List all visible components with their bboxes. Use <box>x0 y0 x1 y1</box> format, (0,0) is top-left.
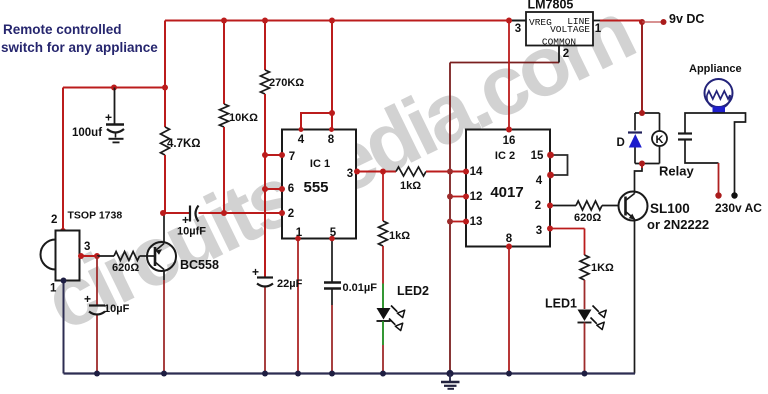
svg-text:4017: 4017 <box>490 184 523 201</box>
node 4017 pin2 <box>547 203 553 209</box>
node rail 4017 pin8 <box>506 371 512 377</box>
wire left horizontal y87 <box>63 87 165 89</box>
wire 10K bottom lead <box>223 127 225 213</box>
wire LED2 mid <box>382 246 384 308</box>
label VREG <box>529 17 552 28</box>
label 4017 <box>490 184 523 201</box>
label Relay <box>659 164 694 179</box>
node rail BC558 <box>161 371 167 377</box>
node TSOP pin2 <box>60 228 66 234</box>
svg-text:230v AC: 230v AC <box>715 201 762 215</box>
wire 270K top lead <box>264 21 266 71</box>
label 4017 pin16 <box>503 135 516 147</box>
svg-text:3: 3 <box>347 168 353 180</box>
wire 100uf cap lead <box>114 88 116 125</box>
label TSOP pin 3 <box>84 241 90 253</box>
wire 555 pin3 <box>356 171 396 173</box>
node rail 555 pin5 <box>329 371 335 377</box>
svg-text:6: 6 <box>288 183 294 195</box>
transistor Q SL100 <box>619 192 648 221</box>
node junction x165 y87 <box>162 85 168 91</box>
wire 4017 pin15-pin4 loop <box>550 155 568 175</box>
wire 4017 pin12 <box>450 196 466 198</box>
resistor R 1K LED1 <box>580 255 589 280</box>
svg-text:1: 1 <box>50 283 57 295</box>
wire 4017 pin2 to base <box>550 205 576 207</box>
node AC terminal black <box>731 192 737 198</box>
wire 270K bottom lead <box>264 94 266 277</box>
node 4017 pin14 <box>463 169 469 175</box>
label VOLTAGE <box>550 24 590 35</box>
node 9v junction <box>639 19 645 25</box>
svg-text:Remote controlled: Remote controlled <box>3 22 122 37</box>
svg-text:555: 555 <box>303 179 328 196</box>
node 9v terminal <box>661 19 667 25</box>
wire appliance bracket <box>685 113 746 195</box>
label 10uF <box>104 303 130 315</box>
node 555 pin7 <box>279 152 285 158</box>
node 4017 pin8 <box>506 244 512 250</box>
label 270KOhm <box>269 77 304 89</box>
label LED1 <box>545 297 577 311</box>
resistor R 4.7K <box>161 127 170 155</box>
label LINE <box>567 16 590 27</box>
wire diode top lead <box>634 113 636 131</box>
node junction pin7 <box>262 152 268 158</box>
svg-text:2: 2 <box>563 48 569 60</box>
svg-text:4.7KΩ: 4.7KΩ <box>167 138 201 150</box>
capacitor C 10uF <box>84 292 105 315</box>
label 620ohm right <box>574 212 601 224</box>
wire 555 pin1 ground <box>297 239 299 374</box>
svg-text:COMMON: COMMON <box>542 37 576 48</box>
wire 620 to SL100 base <box>602 205 619 207</box>
svg-text:1kΩ: 1kΩ <box>389 230 410 242</box>
label 4.7KOhm <box>167 138 201 150</box>
node top rail junction x224 <box>221 18 227 24</box>
node 555 pin3 <box>354 169 360 175</box>
label IC 1 <box>310 158 330 170</box>
wire LED1 to rail <box>584 323 586 374</box>
wire to 620ohm <box>97 255 114 257</box>
svg-text:1kΩ: 1kΩ <box>400 180 421 192</box>
wire 555 supply bracket <box>301 21 332 130</box>
wire 555 pin7 <box>265 154 282 156</box>
svg-text:13: 13 <box>470 216 483 228</box>
node relay top junction <box>639 110 645 116</box>
node rail LED2 <box>380 371 386 377</box>
node 555 pin8 <box>329 127 334 132</box>
label 555 pin3 <box>347 168 353 180</box>
label TSOP 1738 <box>68 210 123 222</box>
svg-text:620Ω: 620Ω <box>112 262 139 274</box>
node 4017 pin4 <box>547 172 554 179</box>
label 555 pin8 <box>328 134 335 146</box>
node junction 10K y213 <box>221 210 227 216</box>
svg-text:2: 2 <box>288 208 294 220</box>
LED1 arrows <box>591 306 607 330</box>
ground symbol <box>441 374 460 389</box>
node junction common pin14 <box>447 169 453 175</box>
wire x165 resistor to junction <box>164 155 166 213</box>
svg-text:BC558: BC558 <box>180 258 219 272</box>
LED2 diode <box>377 308 391 321</box>
resistor R 10K <box>220 104 229 127</box>
wire 4017 pin13 <box>450 221 466 223</box>
node junction common pin12 <box>447 194 453 200</box>
node top rail junction x265 <box>262 18 268 24</box>
wire y213 junction to cap <box>163 212 190 214</box>
wire common from regulator <box>450 46 559 63</box>
op-amp IC1 555 box <box>282 130 356 239</box>
wire common vertical x450 <box>449 63 451 374</box>
svg-text:switch for any appliance: switch for any appliance <box>1 40 158 55</box>
resistor R 620ohm right <box>576 201 602 210</box>
resistor R 1k horizontal <box>396 167 426 176</box>
label 4017 pin15 <box>531 150 544 162</box>
svg-text:14: 14 <box>470 166 483 178</box>
svg-text:IC 2: IC 2 <box>495 150 515 162</box>
wire AC live <box>718 163 720 195</box>
node junction emitter y213 <box>160 210 166 216</box>
label LM7805 pin2 <box>563 48 569 60</box>
node 555 pin4 <box>299 127 304 132</box>
wire cap to AC <box>685 140 719 164</box>
svg-text:LED1: LED1 <box>545 297 577 311</box>
node rail 555 pin1 <box>295 371 301 377</box>
svg-text:10µfF: 10µfF <box>177 226 206 238</box>
svg-text:LED2: LED2 <box>397 284 429 298</box>
label 620ohm left <box>112 262 139 274</box>
node junction pin3 x97 <box>94 253 100 259</box>
node rail ground <box>446 370 453 377</box>
node junction 100uf cap <box>111 85 117 91</box>
label BC558 <box>180 258 219 272</box>
svg-text:10KΩ: 10KΩ <box>229 112 258 124</box>
wire relay top bracket <box>635 112 660 114</box>
label D <box>617 137 625 149</box>
node junction pin6 <box>262 186 268 192</box>
wire ground rail <box>64 372 636 374</box>
svg-text:SL100: SL100 <box>650 201 690 216</box>
node 555 pin5 <box>329 236 335 242</box>
node relay bottom junction <box>639 161 645 167</box>
label LM7805 pin1 <box>595 23 602 35</box>
label Appliance <box>689 63 742 75</box>
node top rail junction x332 <box>329 18 335 24</box>
node junction common pin13 <box>447 219 453 225</box>
LED2 arrows <box>389 306 405 331</box>
label 230v AC <box>715 201 762 215</box>
node rail 22uF <box>262 371 268 377</box>
label LM7805 <box>528 0 574 12</box>
svg-text:8: 8 <box>506 233 513 245</box>
label 555 pin7 <box>289 151 295 163</box>
wire x165 to resistor <box>164 88 166 128</box>
label 4017 pin12 <box>470 191 483 203</box>
wire 4017 pin3 <box>550 228 585 230</box>
wire relay bottom bracket <box>635 163 660 165</box>
label LED2 <box>397 284 429 298</box>
node rail 10uF <box>94 371 100 377</box>
label 1K LED1 <box>591 262 614 274</box>
label 22uF <box>277 278 303 290</box>
capacitor C 100uf <box>105 111 124 143</box>
label COMMON <box>542 37 576 48</box>
node junction LED2 branch <box>380 169 386 175</box>
wire SL100 collector <box>635 164 643 194</box>
svg-text:4: 4 <box>298 134 305 146</box>
svg-text:IC 1: IC 1 <box>310 158 330 170</box>
wire cap to 555 pin2 <box>199 212 283 214</box>
label 555 pin4 <box>298 134 305 146</box>
label 10ufF <box>177 226 206 238</box>
label 555 pin6 <box>288 183 294 195</box>
svg-text:+: + <box>105 111 112 125</box>
label 4017 pin8 <box>506 233 513 245</box>
capacitor C appliance <box>678 134 692 140</box>
wire TSOP pin1 ground <box>63 281 65 374</box>
relay coil K <box>652 113 667 164</box>
wire 10uF to rail <box>96 316 98 374</box>
wire 9v vertical <box>641 21 643 114</box>
node 4017 pin12 <box>463 194 469 200</box>
svg-text:7: 7 <box>289 151 295 163</box>
label 555 pin2 <box>288 208 294 220</box>
svg-text:8: 8 <box>328 134 335 146</box>
svg-text:1: 1 <box>595 23 602 35</box>
svg-text:3: 3 <box>84 241 90 253</box>
node AC terminal red <box>715 192 721 198</box>
svg-text:9v DC: 9v DC <box>669 12 704 26</box>
label IC 2 <box>495 150 515 162</box>
wire 1K to LED1 <box>584 280 586 309</box>
svg-text:620Ω: 620Ω <box>574 212 601 224</box>
label TSOP pin 1 <box>50 283 57 295</box>
wire BC558 emitter up <box>163 213 165 244</box>
node TSOP pin3 <box>78 253 84 259</box>
lamp appliance <box>705 79 733 113</box>
resistor R 270K <box>261 70 270 94</box>
svg-text:2: 2 <box>51 214 57 226</box>
wire 9v terminal <box>642 21 663 23</box>
label 555 pin1 <box>296 227 303 239</box>
LED1 diode <box>578 310 592 323</box>
wire 555 pin6 <box>265 188 282 190</box>
wire BC558 collector down <box>163 270 165 374</box>
regulator U LM7805 box <box>526 12 593 46</box>
svg-text:1KΩ: 1KΩ <box>591 262 614 274</box>
svg-text:VREG: VREG <box>529 17 552 28</box>
wire TSOP pin3 <box>80 255 98 257</box>
node 4017 pin3 <box>547 226 553 232</box>
svg-text:100uf: 100uf <box>72 127 102 139</box>
svg-text:3: 3 <box>515 23 521 35</box>
node top rail junction x509 <box>506 18 512 24</box>
svg-text:+: + <box>252 265 259 279</box>
label 4017 pin4 <box>536 175 543 187</box>
wire TSOP pin2 vertical <box>62 88 64 231</box>
svg-text:D: D <box>617 137 625 149</box>
capacitor C 22uF <box>252 265 273 287</box>
svg-text:22µF: 22µF <box>277 278 303 290</box>
svg-text:15: 15 <box>531 150 544 162</box>
op-amp IC2 4017 box <box>466 130 550 247</box>
node 4017 pin13 <box>463 219 469 225</box>
svg-text:270KΩ: 270KΩ <box>269 77 304 89</box>
svg-text:VOLTAGE: VOLTAGE <box>550 24 590 35</box>
label or 2N2222 <box>647 217 709 232</box>
resistor R 620ohm left <box>114 252 140 261</box>
wire LED2 lower <box>382 321 384 374</box>
svg-text:12: 12 <box>470 191 483 203</box>
wire 4017 pin8 ground <box>508 247 510 374</box>
label 4017 pin13 <box>470 216 483 228</box>
svg-text:K: K <box>656 134 664 146</box>
wire 1k to 4017 pin14 <box>426 171 466 173</box>
node TSOP pin1 <box>61 278 67 284</box>
node 4017 pin16 <box>506 127 512 133</box>
label 4017 pin3 <box>536 225 542 237</box>
wire left vertical x165 top <box>164 21 166 88</box>
label 4017 pin14 <box>470 166 483 178</box>
wire diode bottom lead <box>634 148 636 164</box>
node 555 pin2 <box>279 210 285 216</box>
svg-text:+: + <box>84 292 91 306</box>
svg-text:Appliance: Appliance <box>689 63 742 75</box>
label SL100 <box>650 201 690 216</box>
label 10KOhm <box>229 112 258 124</box>
svg-text:3: 3 <box>536 225 542 237</box>
capacitor C 10ufF coupling <box>182 206 199 228</box>
label 0.01uF <box>343 282 378 294</box>
svg-text:Relay: Relay <box>659 164 694 179</box>
IR receiver TSOP1738 body <box>41 231 80 281</box>
wire 10uF cap lead top <box>96 256 98 305</box>
svg-text:or 2N2222: or 2N2222 <box>647 217 709 232</box>
svg-text:TSOP 1738: TSOP 1738 <box>68 210 123 222</box>
wire SL100 collector red stub <box>641 164 643 169</box>
label 555 <box>303 179 328 196</box>
wire pin3 down to 1K <box>584 229 586 256</box>
node 4017 pin15 <box>547 152 554 159</box>
diode D flyback <box>628 133 642 148</box>
node 555 pin1 <box>295 236 301 242</box>
label LM7805 pin3 <box>515 23 521 35</box>
label 9v DC <box>669 12 704 26</box>
wire 555 pin5 ground <box>331 239 333 374</box>
label 1k LED2 <box>389 230 410 242</box>
node rail LED1 <box>582 371 588 377</box>
wire 22uF to rail <box>264 288 266 374</box>
title text <box>1 22 158 55</box>
svg-text:10µF: 10µF <box>104 303 130 315</box>
label 100uf <box>72 127 102 139</box>
transistor Q BC558 <box>147 242 176 271</box>
label 4017 pin2 <box>535 200 541 212</box>
label TSOP pin 2 <box>51 214 57 226</box>
wire 620ohm to base <box>140 255 156 257</box>
svg-text:4: 4 <box>536 175 543 187</box>
node 555 pin6 <box>279 186 285 192</box>
node 555 bracket junction <box>329 110 335 116</box>
wire 10K top lead <box>223 21 225 105</box>
resistor R 1k LED2 <box>379 221 388 246</box>
label 555 pin5 <box>330 227 337 239</box>
wire 4017 pin16 supply <box>508 21 510 130</box>
wire top positive rail <box>165 20 526 22</box>
capacitor C 0.01uF <box>324 283 341 289</box>
label 1k horizontal <box>400 180 421 192</box>
svg-text:0.01µF: 0.01µF <box>343 282 378 294</box>
wire LED2 branch upper <box>382 172 384 222</box>
svg-text:LM7805: LM7805 <box>528 0 574 12</box>
svg-text:2: 2 <box>535 200 541 212</box>
wire SL100 emitter <box>634 219 636 374</box>
svg-text:16: 16 <box>503 135 516 147</box>
wire LM7805 pin1 out <box>593 20 642 22</box>
